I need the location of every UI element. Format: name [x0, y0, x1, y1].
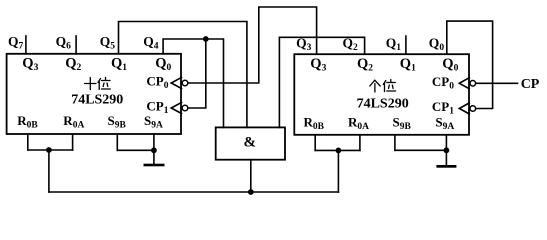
ground bar tens [144, 164, 165, 167]
wire AND output [250, 160, 252, 192]
wire ones Q2 to AND input 3 [279, 37, 364, 127]
wire ones R0A stub [359, 135, 361, 151]
IC U2 74LS290 ones box [294, 54, 469, 135]
svg-text:&: & [244, 135, 257, 151]
wire ones S9B-S9A join [395, 149, 447, 151]
wire tens S9A stub [153, 134, 155, 150]
wire tens Q3 pin stub [25, 36, 27, 54]
wire tens Q2 pin stub [75, 36, 77, 54]
wire tens S9 to ground [153, 150, 155, 164]
wire ones S9A stub [445, 135, 447, 151]
wire tens R0A stub [72, 134, 74, 150]
wire ones S9B stub [394, 135, 396, 151]
clock triangle tens CP1 [171, 102, 181, 113]
wire CP input to ones CP0 [476, 82, 518, 84]
label 十位 tens (drawn strokes) [85, 78, 111, 90]
wire tens reset drop to bus [48, 150, 50, 192]
svg-text:74LS290: 74LS290 [357, 96, 409, 111]
svg-text:CP: CP [521, 77, 540, 92]
junction dot bus/AND output [248, 189, 254, 195]
junction dot ones reset [336, 148, 342, 154]
bubble ones CP1 [470, 106, 476, 112]
wire ones R0B stub [314, 135, 316, 151]
wire tens R0B-R0A join [28, 149, 73, 151]
AND gate U3 box [216, 127, 285, 159]
bubble tens CP0 [182, 80, 188, 86]
junction dot tens S9 ground [151, 147, 157, 153]
wire ones R0B-R0A join [315, 149, 360, 151]
junction dot ones S9 ground [444, 147, 450, 153]
wire tens Q0 to AND input 1 [163, 39, 223, 127]
bubble ones CP0 [470, 81, 476, 87]
junction dot tens reset [46, 147, 52, 153]
wire ones reset drop to bus [337, 150, 339, 192]
ground bar ones [436, 165, 456, 168]
wire tens R0B stub [27, 134, 29, 150]
wire tens S9B-S9A join [117, 149, 154, 151]
clock triangle ones CP1 [459, 103, 469, 114]
wire reset bus [49, 191, 339, 193]
label 个位 ones (drawn strokes) [370, 80, 396, 93]
wire ones Q0 to ones CP1 [447, 21, 493, 108]
svg-text:74LS290: 74LS290 [71, 93, 123, 108]
wire tens Q0 branch to tens CP1 [188, 39, 206, 108]
wire tens Q1 to AND input 2 [119, 22, 247, 128]
clock triangle ones CP0 [459, 78, 469, 89]
wire tens S9B stub [116, 134, 118, 150]
IC U1 74LS290 tens box [7, 54, 181, 134]
junction dot tens Q0/CP1 [203, 36, 209, 42]
wire ones S9 to ground [445, 150, 447, 165]
clock triangle tens CP0 [171, 77, 181, 88]
wire ones Q3 to tens CP0 [188, 7, 316, 83]
bubble tens CP1 [182, 105, 188, 111]
wire ones Q1 pin stub [405, 36, 407, 54]
